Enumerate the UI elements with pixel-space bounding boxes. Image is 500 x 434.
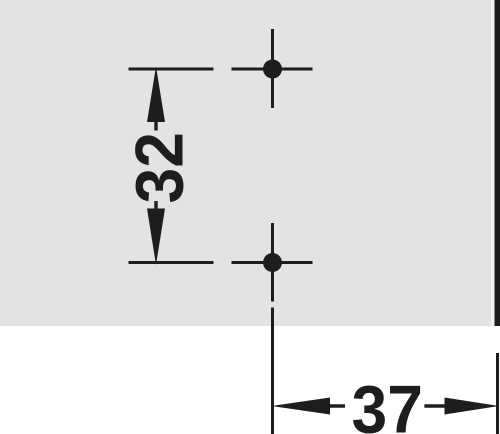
panel edge highlight strip (491, 0, 495, 326)
hole H2 centerline continuation to bottom edge (271, 308, 274, 434)
svg-text:32: 32 (122, 132, 198, 203)
dimension 32: top extension line (129, 68, 214, 71)
hole H2 horizontal centerline (232, 261, 313, 264)
dimension 32: lower arrow (points down) with shaft (147, 201, 165, 265)
panel front edge (black band) (495, 0, 500, 326)
hole H1 horizontal centerline (232, 68, 313, 71)
hole H1 center dot (263, 60, 282, 79)
dimension 37: right extension line (496, 353, 499, 434)
dimension 37: left arrow (points left) with shaft (272, 398, 346, 415)
svg-text:37: 37 (352, 372, 423, 434)
dimension 32: bottom extension line (129, 261, 214, 264)
panel face (grey mounting surface) (0, 0, 491, 326)
hole H2 (bottom drilling position) vertical centerline upper segment (271, 223, 274, 302)
dimension 32: upper arrow (points up) with shaft (147, 67, 165, 131)
hole H1 (top drilling position) vertical centerline (271, 29, 274, 108)
hole H2 center dot (263, 253, 282, 272)
dimension 37: right arrow (points right) with shaft (424, 398, 499, 415)
